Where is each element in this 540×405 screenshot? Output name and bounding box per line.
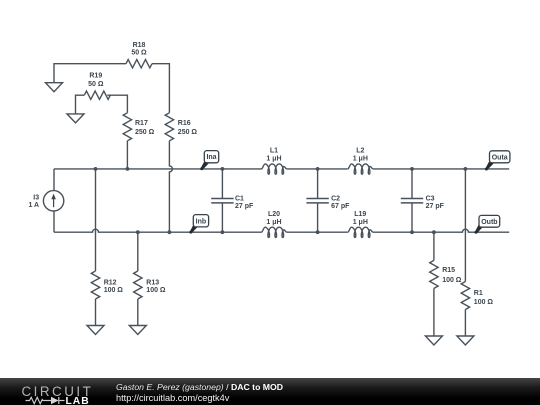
svg-text:R19: R19 — [89, 72, 102, 79]
svg-text:1 μH: 1 μH — [266, 219, 281, 226]
svg-text:R16: R16 — [178, 120, 191, 127]
svg-text:LAB: LAB — [66, 396, 90, 405]
svg-text:Outa: Outa — [492, 154, 508, 161]
svg-text:100 Ω: 100 Ω — [146, 287, 166, 294]
svg-text:27 pF: 27 pF — [426, 203, 445, 210]
svg-text:1 A: 1 A — [28, 202, 39, 209]
svg-text:50 Ω: 50 Ω — [88, 81, 104, 88]
svg-text:C3: C3 — [426, 195, 435, 202]
svg-text:Outb: Outb — [481, 219, 497, 226]
svg-text:R13: R13 — [146, 279, 159, 286]
svg-text:I3: I3 — [33, 195, 39, 202]
svg-text:250 Ω: 250 Ω — [178, 129, 198, 136]
svg-text:C1: C1 — [235, 195, 244, 202]
svg-text:L1: L1 — [270, 148, 278, 155]
svg-text:L19: L19 — [354, 211, 366, 218]
svg-text:C2: C2 — [331, 195, 340, 202]
svg-text:100 Ω: 100 Ω — [474, 299, 494, 306]
svg-text:1 μH: 1 μH — [266, 156, 281, 163]
svg-text:R17: R17 — [135, 120, 148, 127]
svg-text:R12: R12 — [104, 279, 117, 286]
svg-text:L2: L2 — [356, 148, 364, 155]
svg-text:Inb: Inb — [196, 218, 207, 225]
svg-text:100 Ω: 100 Ω — [104, 287, 124, 294]
svg-text:27 pF: 27 pF — [235, 203, 254, 210]
svg-text:L20: L20 — [268, 211, 280, 218]
svg-text:50 Ω: 50 Ω — [131, 50, 147, 57]
svg-text:1 μH: 1 μH — [353, 156, 368, 163]
svg-text:67 pF: 67 pF — [331, 203, 350, 210]
svg-text:250 Ω: 250 Ω — [135, 129, 155, 136]
svg-text:R18: R18 — [133, 42, 146, 49]
svg-text:R1: R1 — [474, 290, 483, 297]
svg-text:1 μH: 1 μH — [353, 219, 368, 226]
svg-text:R15: R15 — [442, 267, 455, 274]
svg-text:100 Ω: 100 Ω — [442, 277, 462, 284]
svg-text:Ina: Ina — [206, 154, 216, 161]
